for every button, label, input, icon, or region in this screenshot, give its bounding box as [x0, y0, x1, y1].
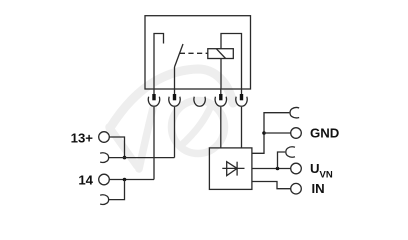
terminal circle GND	[291, 128, 302, 139]
wire: 14 junction down to bridge socket	[109, 180, 125, 200]
socket 2	[169, 97, 180, 107]
socket 1	[148, 97, 159, 107]
wire: UVN junction up to bridge socket	[278, 152, 286, 169]
junction UVN	[276, 167, 280, 171]
terminal circle 13+	[99, 132, 110, 143]
wire: 13+ circle to rail	[109, 137, 124, 158]
wire: socket 2 down to 13+ rail	[174, 107, 176, 158]
relay contact blade 13/14 (NO)	[175, 44, 184, 67]
svg-text:GND: GND	[310, 126, 339, 141]
plug pin terminal 5	[241, 89, 243, 94]
wire: coil A2 pin down to terminal 4	[220, 59, 222, 90]
plug pin terminal 1	[153, 89, 155, 94]
wire: coil A1 pin up and over to terminal 5	[221, 34, 242, 90]
junction GND	[262, 131, 266, 135]
svg-text:13+: 13+	[71, 130, 94, 145]
wire: GND net	[252, 113, 290, 154]
svg-text:IN: IN	[312, 181, 325, 196]
wire: contact terminal 13 riser to fixed contact	[154, 34, 164, 90]
bridge socket above GND	[290, 107, 299, 117]
svg-text:14: 14	[78, 173, 93, 188]
bridge socket above UVN	[286, 147, 295, 157]
wire: UVN net	[252, 168, 291, 170]
input protection module box	[209, 148, 252, 190]
bridge socket below 14	[100, 195, 108, 205]
junction 14 rail	[123, 178, 127, 182]
svg-text:UVN: UVN	[310, 161, 333, 180]
socket 5	[236, 97, 247, 107]
wire: socket 5 down to input module	[241, 107, 243, 148]
plug pin terminal 2	[174, 89, 176, 94]
wire: socket 1 down to 14 rail	[153, 107, 155, 180]
relay coil diagonal	[216, 49, 225, 59]
terminal circle 14	[99, 174, 110, 185]
wire: contact terminal 14 riser	[174, 67, 176, 89]
plug pin terminal 4	[220, 89, 222, 94]
mechanical link (dashed) coil to contact	[180, 52, 208, 54]
wire: 14 rail	[109, 179, 154, 181]
terminal circle UVN	[291, 163, 302, 174]
wire: IN net	[252, 182, 291, 189]
bridge socket below 13+	[100, 153, 108, 163]
socket 4	[215, 97, 226, 107]
wire: junction to GND circle	[264, 132, 291, 134]
terminal circle IN	[291, 183, 302, 194]
junction 13+ rail	[123, 156, 127, 160]
socket 3 (empty)	[194, 97, 205, 107]
relay module outline K1	[145, 16, 251, 89]
wire: 13+ rail	[109, 157, 175, 159]
relay coil K1 body	[208, 49, 234, 59]
wire: socket 4 down to input module	[220, 107, 222, 148]
diode D1	[222, 167, 244, 169]
